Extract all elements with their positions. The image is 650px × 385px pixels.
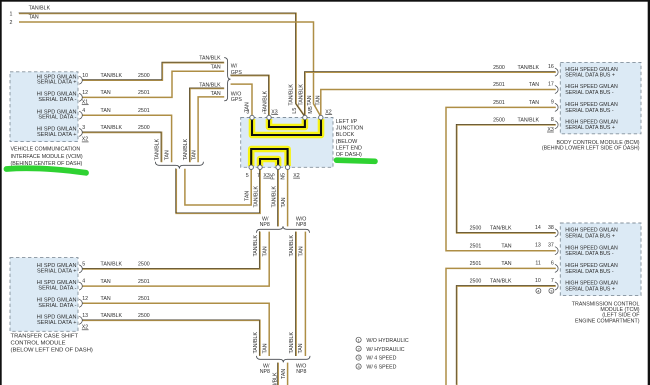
svg-text:TAN/BLK: TAN/BLK xyxy=(262,90,268,112)
svg-text:38: 38 xyxy=(548,225,554,231)
module TCM box xyxy=(560,223,641,296)
svg-text:TAN/BLK: TAN/BLK xyxy=(253,332,259,354)
frame left border xyxy=(0,0,2,385)
wire TAN/BLK 2500 junction pin L5 to BCM pin 16 xyxy=(304,72,555,117)
svg-text:7: 7 xyxy=(257,173,260,179)
svg-text:(BELOW: (BELOW xyxy=(336,139,358,145)
junction block bus bar highlight (yellow) top inner xyxy=(269,119,305,127)
connector VCIM pin 4 xyxy=(79,111,82,119)
svg-text:2501: 2501 xyxy=(138,108,150,114)
wire VCIM pin3 TAN/BLK 2500 down to GPS option brace xyxy=(82,132,161,162)
svg-text:P5: P5 xyxy=(270,173,276,180)
svg-text:SERIAL DATA +: SERIAL DATA + xyxy=(37,320,77,326)
BCM wire labels xyxy=(493,64,554,133)
wire TAN from GPS brace to junction pin 3 xyxy=(231,84,252,116)
svg-text:3: 3 xyxy=(82,125,85,131)
connector VCIM pin 10 xyxy=(79,76,82,84)
svg-text:SERIAL DATA BUS +: SERIAL DATA BUS + xyxy=(565,286,615,292)
legend circled 3 W/ 4 SPEED xyxy=(356,355,361,360)
svg-text:TAN: TAN xyxy=(245,102,251,112)
junction block bus bar highlight (yellow) bottom inner xyxy=(260,159,278,166)
junction block (Left I/P Junction Block) box xyxy=(241,118,333,168)
svg-text:TAN/BLK: TAN/BLK xyxy=(299,84,305,106)
svg-text:W/ HYDRAULIC: W/ HYDRAULIC xyxy=(366,347,404,353)
svg-text:W/O HYDRAULIC: W/O HYDRAULIC xyxy=(366,338,409,344)
svg-text:TAN: TAN xyxy=(211,91,221,97)
TCM caption xyxy=(572,301,640,324)
svg-text:(BELOW LEFT END OF DASH): (BELOW LEFT END OF DASH) xyxy=(11,347,93,353)
svg-text:11: 11 xyxy=(535,260,541,266)
wire W/O GPS TAN/BLK stub xyxy=(189,88,224,162)
svg-text:12: 12 xyxy=(82,90,88,96)
svg-text:TAN/BLK: TAN/BLK xyxy=(289,332,295,354)
svg-text:GPS: GPS xyxy=(231,70,243,76)
wire TAN/BLK W/ NP8 from brace to Transfer Case pin 5 xyxy=(82,231,260,269)
junction pin N5 xyxy=(285,165,289,169)
svg-text:13: 13 xyxy=(82,313,88,319)
TCM wire labels xyxy=(470,225,554,285)
TCM circled 3 xyxy=(549,288,554,293)
W/ NP8 and W/O NP8 labels upper xyxy=(260,216,307,228)
svg-text:2501: 2501 xyxy=(138,279,150,285)
svg-text:SERIAL DATA -: SERIAL DATA - xyxy=(38,97,76,103)
svg-text:TAN: TAN xyxy=(501,261,511,267)
legend circled 1 W/O HYDRAULIC xyxy=(356,337,361,342)
connector VCIM pin 12 xyxy=(79,93,82,101)
Transfer case wire labels xyxy=(101,262,150,319)
svg-text:TAN/BLK: TAN/BLK xyxy=(101,262,123,268)
svg-text:W/ 6 SPEED: W/ 6 SPEED xyxy=(366,365,396,371)
svg-text:TAN: TAN xyxy=(262,343,268,353)
connector TCM pins 13/37 xyxy=(555,247,558,255)
TCM row texts xyxy=(565,228,618,293)
svg-text:TAN: TAN xyxy=(101,108,111,114)
svg-text:TAN/BLK: TAN/BLK xyxy=(253,235,259,257)
wire TAN/BLK W/O NP8 from brace down to bottom brace xyxy=(295,232,297,356)
svg-text:TAN/BLK: TAN/BLK xyxy=(272,186,278,208)
connector TCM pins 10/7 xyxy=(555,282,558,290)
svg-text:TAN: TAN xyxy=(529,82,539,88)
svg-text:12: 12 xyxy=(82,296,88,302)
VCIM row texts xyxy=(37,74,77,138)
svg-text:TAN: TAN xyxy=(281,369,287,379)
wire TAN W/O NP8 from brace down to bottom brace xyxy=(304,232,306,356)
Transfer case row texts xyxy=(37,263,77,326)
svg-text:TRANSFER CASE SHIFT: TRANSFER CASE SHIFT xyxy=(11,333,79,339)
svg-text:TAN: TAN xyxy=(529,100,539,106)
wire TAN/BLK 2500 BCM pin 8 to TCM pins 14/38 xyxy=(456,124,556,233)
svg-text:TAN/BLK: TAN/BLK xyxy=(199,55,221,61)
svg-text:LEFT END: LEFT END xyxy=(336,145,362,151)
svg-text:TAN: TAN xyxy=(101,296,111,302)
green highlighter stroke under VCIM caption xyxy=(7,168,87,173)
svg-text:SERIAL DATA BUS -: SERIAL DATA BUS - xyxy=(565,251,614,257)
svg-text:LEFT I/P: LEFT I/P xyxy=(336,119,358,125)
VCIM wire color/circuit labels xyxy=(101,73,150,131)
junction pin P5 xyxy=(276,165,280,169)
svg-text:2500: 2500 xyxy=(138,125,150,131)
svg-text:17: 17 xyxy=(548,82,554,88)
wire VCIM pin4 TAN 2501 down to GPS option brace xyxy=(83,115,172,162)
svg-text:SERIAL DATA BUS -: SERIAL DATA BUS - xyxy=(565,269,614,275)
svg-text:(BEHIND LOWER LEFT SIDE OF DAS: (BEHIND LOWER LEFT SIDE OF DASH) xyxy=(542,145,640,151)
svg-text:TAN/BLK: TAN/BLK xyxy=(289,235,295,257)
frame top border xyxy=(0,0,650,2)
junction pin 1 xyxy=(267,115,271,119)
svg-text:OF DASH): OF DASH) xyxy=(336,152,362,158)
svg-text:SERIAL DATA BUS +: SERIAL DATA BUS + xyxy=(565,233,615,239)
svg-text:NP8: NP8 xyxy=(296,369,306,375)
Transfer case caption xyxy=(11,333,93,353)
svg-text:TAN: TAN xyxy=(192,150,198,160)
svg-text:4: 4 xyxy=(82,108,85,114)
junction pin L5 xyxy=(303,115,307,119)
svg-text:6: 6 xyxy=(551,260,554,266)
svg-text:TAN: TAN xyxy=(164,150,170,160)
wire TAN/BLK from GPS brace to junction pin 1 xyxy=(230,75,269,116)
junction block bus bar highlight (yellow) bottom outer xyxy=(251,149,287,166)
wire TAN from lower GPS brace to junction pin 5 xyxy=(185,169,251,205)
svg-text:SERIAL DATA -: SERIAL DATA - xyxy=(38,303,76,309)
legend circled 4 W/ 6 SPEED xyxy=(356,364,361,369)
brace NP8 upper (cusp up) xyxy=(257,226,310,233)
svg-text:SERIAL DATA -: SERIAL DATA - xyxy=(38,286,76,292)
wire TAN 2501 TCM pins 11/6 down off page xyxy=(446,268,556,385)
brace GPS options (tall right brace) xyxy=(224,58,230,101)
svg-text:2: 2 xyxy=(10,20,13,26)
wire TAN Transfer Case pin 12 2501 down to bottom brace xyxy=(83,303,270,356)
module BCM box xyxy=(560,62,641,133)
wire TAN/BLK Transfer Case pin 13 2500 down to bottom brace xyxy=(82,320,260,356)
svg-text:GPS: GPS xyxy=(231,97,243,103)
svg-text:TAN: TAN xyxy=(298,343,304,353)
svg-text:2500: 2500 xyxy=(493,118,505,124)
svg-text:TAN: TAN xyxy=(245,191,251,201)
wire TAN W/ NP8 from brace to Transfer Case pin 4 xyxy=(83,232,270,287)
TCM circled 4 xyxy=(536,288,541,293)
brace GPS lower (cusp down) xyxy=(155,162,203,169)
svg-text:TAN: TAN xyxy=(315,95,321,105)
module Transfer Case Shift Control Module box xyxy=(10,258,78,332)
svg-text:TAN/BLK: TAN/BLK xyxy=(101,125,123,131)
wire TAN/BLK from lower GPS brace to junction pin 7 xyxy=(176,168,260,213)
frame right border xyxy=(648,0,650,385)
brace NP8 lower (cusp down) xyxy=(257,356,311,363)
legend circled 2 W/ HYDRAULIC xyxy=(356,346,361,351)
bus bar top inner: junction pin 1 to pin L5 xyxy=(269,118,305,127)
wire TAN 2501 BCM pin 9 to TCM pins 13/37 xyxy=(446,107,556,250)
junction pin 5 xyxy=(249,165,253,169)
svg-text:W/ 4 SPEED: W/ 4 SPEED xyxy=(366,356,396,362)
bus bar bottom inner: junction pin 7 to pin P5 xyxy=(260,159,278,166)
module VCIM box xyxy=(10,72,78,142)
wire TAN/BLK 2500 TCM pins 10/7 down off page xyxy=(456,286,556,385)
wire circuit 2500 TAN/BLK from pin 1 top-left to junction pin L5 xyxy=(19,13,305,117)
svg-text:W/: W/ xyxy=(231,63,238,69)
connector Transfer Case pin 12 xyxy=(79,299,82,307)
svg-text:SERIAL DATA BUS -: SERIAL DATA BUS - xyxy=(565,108,614,114)
svg-text:SERIAL DATA BUS -: SERIAL DATA BUS - xyxy=(565,90,614,96)
svg-text:2501: 2501 xyxy=(493,82,505,88)
svg-text:2501: 2501 xyxy=(138,90,150,96)
svg-text:5: 5 xyxy=(82,262,85,268)
wire VCIM pin10 TAN/BLK 2500 to W/ GPS brace stub xyxy=(82,62,224,80)
connector BCM pin 8 xyxy=(555,121,558,129)
svg-text:2501: 2501 xyxy=(493,100,505,106)
svg-text:2500: 2500 xyxy=(138,73,150,79)
svg-text:10: 10 xyxy=(82,73,88,79)
BCM caption xyxy=(542,140,640,152)
connector VCIM pin 3 xyxy=(79,128,82,136)
svg-text:SERIAL DATA +: SERIAL DATA + xyxy=(37,268,77,274)
svg-text:TAN: TAN xyxy=(263,246,269,256)
Transfer case pin numbers xyxy=(82,262,89,331)
svg-text:N5: N5 xyxy=(280,173,286,180)
svg-text:TAN/BLK: TAN/BLK xyxy=(490,226,512,232)
wire TAN/BLK output of bottom brace to page bottom xyxy=(277,363,279,385)
junction block bus bar highlight (yellow) top outer xyxy=(252,119,321,135)
svg-text:2500: 2500 xyxy=(470,279,482,285)
svg-text:TAN: TAN xyxy=(281,197,287,207)
svg-text:SERIAL DATA -: SERIAL DATA - xyxy=(38,115,76,121)
svg-text:TAN/BLK: TAN/BLK xyxy=(101,313,123,319)
svg-text:TAN/BLK: TAN/BLK xyxy=(101,73,123,79)
bus bar top outer: junction pin 3 to pin M5 xyxy=(252,118,321,135)
svg-text:VEHICLE COMMUNICATION: VEHICLE COMMUNICATION xyxy=(11,147,81,153)
svg-text:TAN: TAN xyxy=(101,279,111,285)
svg-text:M5: M5 xyxy=(308,106,314,113)
svg-text:TAN: TAN xyxy=(298,246,304,256)
svg-text:TAN/BLK: TAN/BLK xyxy=(288,84,294,106)
svg-text:TAN/BLK: TAN/BLK xyxy=(273,372,279,385)
connector Transfer Case pin 13 xyxy=(79,316,82,324)
svg-text:2501: 2501 xyxy=(470,261,482,267)
W/ NP8 and W/O NP8 labels lower xyxy=(260,363,307,375)
svg-text:5: 5 xyxy=(246,173,249,179)
junction pin 3 xyxy=(250,115,254,119)
svg-text:SERIAL DATA BUS +: SERIAL DATA BUS + xyxy=(565,125,615,131)
wire circuit 2501 TAN from pin 2 top-left to junction pin M5 xyxy=(19,22,321,117)
wire TAN/BLK junction pin P5 down to NP8 brace xyxy=(277,169,279,226)
svg-text:TAN: TAN xyxy=(501,243,511,249)
svg-text:2501: 2501 xyxy=(470,243,482,249)
svg-text:10: 10 xyxy=(535,278,541,284)
VCIM pin numbers and X1/X2 xyxy=(82,73,89,143)
svg-text:TAN: TAN xyxy=(211,64,221,70)
svg-text:L5: L5 xyxy=(292,108,298,114)
svg-text:SERIAL DATA +: SERIAL DATA + xyxy=(37,132,77,138)
svg-text:14: 14 xyxy=(535,225,541,231)
connector TCM pins 14/38 xyxy=(555,229,558,237)
svg-text:16: 16 xyxy=(548,64,554,70)
svg-text:BLOCK: BLOCK xyxy=(336,132,355,138)
svg-text:TAN/BLK: TAN/BLK xyxy=(183,138,189,160)
svg-text:SERIAL DATA BUS +: SERIAL DATA BUS + xyxy=(565,73,615,79)
connector TCM pins 11/6 xyxy=(555,264,558,272)
svg-text:TAN/BLK: TAN/BLK xyxy=(253,186,259,208)
svg-text:TAN: TAN xyxy=(307,95,313,105)
wire W/O GPS TAN stub xyxy=(198,97,224,162)
connector BCM pin 17 xyxy=(555,86,558,94)
connector BCM pin 16 xyxy=(555,68,558,76)
svg-text:TAN: TAN xyxy=(29,15,39,21)
bus bar bottom outer: junction pin 5 to pin N5 xyxy=(251,149,287,166)
svg-text:2500: 2500 xyxy=(138,262,150,268)
wire TAN output of bottom brace to page bottom xyxy=(287,363,289,385)
svg-text:37: 37 xyxy=(548,243,554,249)
svg-text:TAN/BLK: TAN/BLK xyxy=(155,138,161,160)
svg-text:13: 13 xyxy=(535,243,541,249)
wire VCIM pin12 TAN 2501 to W/ GPS brace stub xyxy=(83,71,225,97)
svg-text:2500: 2500 xyxy=(138,313,150,319)
VCIM caption xyxy=(11,147,83,168)
svg-text:2500: 2500 xyxy=(470,226,482,232)
svg-text:9: 9 xyxy=(551,99,554,105)
junction pin M5 xyxy=(319,115,323,119)
svg-text:NP8: NP8 xyxy=(260,369,270,375)
svg-text:NP8: NP8 xyxy=(296,222,306,228)
connector Transfer Case pin 5 xyxy=(79,265,82,273)
svg-text:4: 4 xyxy=(82,279,85,285)
svg-text:JUNCTION: JUNCTION xyxy=(336,126,364,132)
junction block caption xyxy=(336,119,364,158)
svg-text:7: 7 xyxy=(551,278,554,284)
svg-text:NP8: NP8 xyxy=(260,222,270,228)
GPS stub labels xyxy=(199,55,221,97)
svg-text:TAN/BLK: TAN/BLK xyxy=(518,118,540,124)
W/ GPS and W/O GPS labels xyxy=(231,63,243,103)
connector Transfer Case pin 4 xyxy=(79,282,82,290)
svg-text:TAN/BLK: TAN/BLK xyxy=(29,6,51,12)
svg-text:2500: 2500 xyxy=(493,65,505,71)
svg-text:ENGINE COMPARTMENT): ENGINE COMPARTMENT) xyxy=(575,318,640,324)
svg-text:TAN/BLK: TAN/BLK xyxy=(518,65,540,71)
wire TAN 2501 junction pin M5 to BCM pin 17 xyxy=(321,90,556,117)
connector BCM pin 9 xyxy=(555,103,558,111)
green highlighter stroke under junction block caption xyxy=(337,160,376,161)
BCM row texts xyxy=(565,67,618,131)
svg-text:2501: 2501 xyxy=(138,296,150,302)
svg-text:INTERFACE MODULE (VCIM): INTERFACE MODULE (VCIM) xyxy=(11,154,83,160)
svg-text:SERIAL DATA +: SERIAL DATA + xyxy=(37,80,77,86)
svg-text:8: 8 xyxy=(551,117,554,123)
wire TAN junction pin N5 down to NP8 brace xyxy=(287,169,289,226)
svg-text:TAN/BLK: TAN/BLK xyxy=(199,83,221,89)
svg-text:TAN/BLK: TAN/BLK xyxy=(490,279,512,285)
svg-text:TAN: TAN xyxy=(101,90,111,96)
junction pin 7 xyxy=(258,165,262,169)
svg-text:1: 1 xyxy=(10,11,13,17)
svg-text:CONTROL MODULE: CONTROL MODULE xyxy=(11,340,66,346)
